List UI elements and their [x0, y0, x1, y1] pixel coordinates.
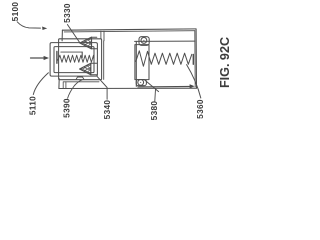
top tab hole	[141, 38, 147, 44]
bottom tab	[136, 80, 146, 86]
bottom wedge stems	[91, 63, 97, 74]
label 5380	[149, 101, 159, 121]
left assembly cage box	[59, 39, 102, 80]
bottom tab hole	[138, 80, 144, 86]
cage mount verticals to enclosure top	[101, 31, 104, 41]
leader 5390	[68, 80, 82, 98]
label 5100	[10, 2, 20, 22]
right strut	[145, 80, 159, 92]
enclosure left wall upper segment	[61, 30, 63, 41]
label 5330	[62, 3, 72, 23]
under-structure tab bump	[76, 77, 84, 80]
right plate	[135, 45, 149, 80]
svg-text:5380: 5380	[149, 101, 159, 120]
svg-text:5390: 5390	[61, 98, 71, 118]
leader from 5100 with arrowhead	[17, 22, 40, 28]
left spring	[58, 55, 94, 62]
rod above spring	[61, 51, 82, 53]
leader 5330 to top wedge tip	[67, 25, 80, 44]
bottom slide arrow	[138, 85, 190, 88]
right assembly left wall	[135, 41, 137, 86]
right spring	[136, 51, 192, 66]
svg-text:FIG. 92C: FIG. 92C	[218, 37, 232, 88]
svg-text:5340: 5340	[102, 100, 112, 120]
svg-text:5100: 5100	[10, 2, 20, 22]
label 5390	[61, 98, 71, 118]
label 5340	[102, 100, 112, 120]
leader 5360	[187, 65, 201, 98]
enclosure left wall lower segment	[58, 79, 60, 89]
top wedge stems	[92, 37, 97, 49]
leader 5340	[97, 76, 107, 99]
rod end bar	[81, 52, 83, 57]
right assembly shelf top	[135, 40, 195, 42]
svg-text:5330: 5330	[62, 3, 72, 23]
leader 5110	[33, 73, 48, 95]
left entry arrow	[31, 57, 45, 59]
enclosure right wall outer	[195, 29, 197, 88]
svg-text:5360: 5360	[195, 99, 205, 119]
enclosure inner top edge	[64, 31, 195, 32]
svg-text:5110: 5110	[28, 96, 38, 115]
enclosure right wall inner	[194, 31, 196, 87]
left spring end plate	[56, 52, 58, 64]
top wedge (hatched arrow)	[80, 37, 92, 49]
bottom wedge (hatched arrow)	[80, 63, 91, 74]
FIG caption	[218, 37, 232, 88]
label 5110	[28, 96, 38, 115]
enclosure outer top edge	[62, 29, 196, 30]
enclosure bottom edge	[59, 87, 197, 89]
cage double bottom line	[64, 81, 100, 83]
left assembly inner box	[54, 47, 94, 73]
right spring end plate	[192, 55, 194, 65]
cage right double wall	[103, 41, 105, 80]
leader 5380	[154, 90, 157, 102]
left assembly outer box	[50, 43, 97, 77]
label 5360	[195, 99, 205, 119]
under-structure stem walls	[63, 82, 66, 89]
right plate top tab	[139, 37, 149, 46]
